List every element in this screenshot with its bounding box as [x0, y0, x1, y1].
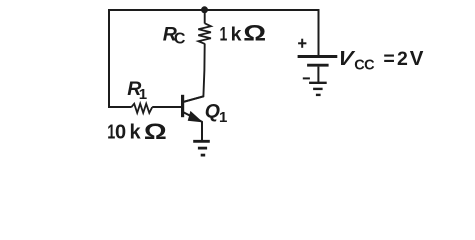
- svg-text:Q: Q: [205, 101, 220, 123]
- svg-text:0: 0: [115, 122, 126, 144]
- ground (emitter): [193, 141, 210, 155]
- label VCC = 2 V: [336, 47, 357, 70]
- minus sign: [303, 77, 310, 79]
- ground (battery): [309, 83, 327, 95]
- wire: base lead from left branch to R1: [108, 106, 131, 108]
- svg-text:1: 1: [219, 109, 227, 126]
- transistor Q1: collector stroke: [184, 96, 204, 102]
- svg-text:k: k: [130, 122, 142, 144]
- svg-text:CC: CC: [354, 57, 375, 73]
- resistor R1 (horizontal zigzag): [131, 104, 152, 113]
- wire: R1 to base: [152, 106, 181, 108]
- svg-text:1: 1: [139, 86, 147, 103]
- svg-text:2: 2: [397, 48, 408, 70]
- wire: left vertical branch: [108, 9, 110, 108]
- svg-text:=: =: [383, 48, 394, 70]
- transistor Q1: emitter arrowhead: [189, 112, 201, 121]
- value 10 kOhm: [107, 120, 115, 143]
- svg-text:1: 1: [220, 23, 228, 45]
- svg-text:Ω: Ω: [144, 120, 167, 144]
- wire: emitter down to ground: [201, 121, 203, 140]
- wire: RC down to collector: [184, 44, 205, 102]
- wire: junction dot down to RC: [204, 10, 206, 24]
- svg-text:V: V: [410, 47, 424, 70]
- wire: battery drop from top rail: [318, 9, 320, 55]
- junction dot: collector supply node: [201, 6, 208, 13]
- svg-text:C: C: [174, 31, 186, 48]
- transistor Q1: emitter stroke: [184, 112, 203, 122]
- wire: top rail from left branch to battery: [108, 9, 320, 11]
- battery VCC: positive plate (long): [298, 55, 338, 58]
- plus sign: [298, 39, 306, 48]
- transistor Q1: base bar: [181, 95, 184, 117]
- battery VCC: negative plate (short): [307, 64, 329, 67]
- value 1 kOhm: [220, 23, 228, 45]
- resistor RC (vertical zigzag): [198, 23, 211, 44]
- svg-text:k: k: [231, 23, 242, 45]
- wire: battery to ground: [317, 67, 319, 82]
- svg-text:Ω: Ω: [243, 21, 266, 45]
